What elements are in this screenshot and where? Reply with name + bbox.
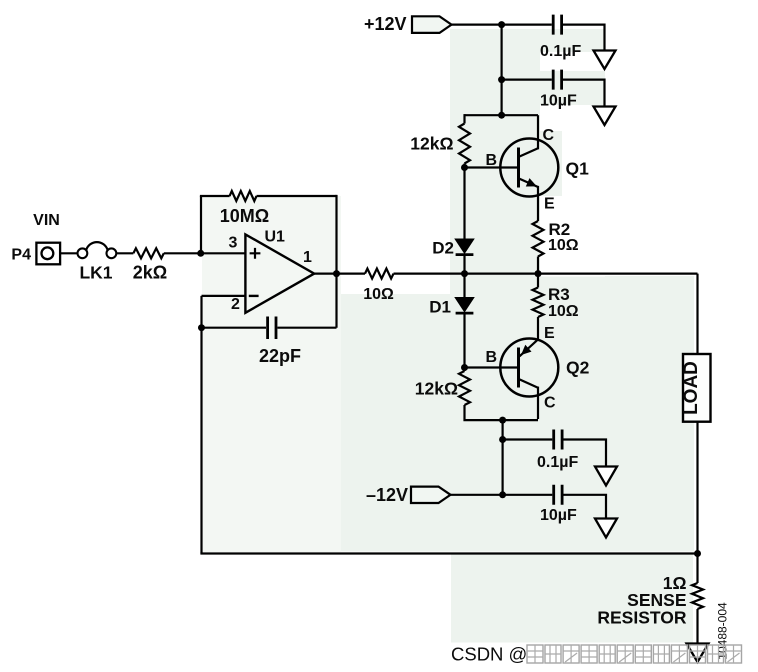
svg-text:10µF: 10µF bbox=[540, 507, 577, 524]
svg-text:–12V: –12V bbox=[366, 485, 408, 505]
pin number 3 bbox=[229, 235, 238, 252]
svg-text:0.1µF: 0.1µF bbox=[540, 43, 581, 60]
wire Q1 base bbox=[465, 166, 518, 168]
label D1 bbox=[429, 298, 451, 317]
wire -12V vertical column bbox=[502, 420, 504, 495]
wire P4 to LK1 bbox=[60, 252, 77, 254]
label 10Ohm output bbox=[363, 286, 394, 303]
node collector rail junction bbox=[498, 112, 505, 119]
node Q1 base junction bbox=[461, 164, 468, 171]
svg-text:LK1: LK1 bbox=[79, 263, 112, 283]
pin number 1 bbox=[303, 249, 312, 266]
transistor Q1 bbox=[500, 115, 558, 221]
svg-text:10Ω: 10Ω bbox=[548, 303, 579, 320]
svg-text:VIN: VIN bbox=[33, 212, 60, 229]
wire 0.1uF to ground bbox=[563, 25, 605, 51]
diode D2 bbox=[456, 239, 474, 254]
wire op-amp -in to left bbox=[202, 295, 246, 297]
svg-text:B: B bbox=[485, 152, 497, 169]
label B Q1 bbox=[485, 152, 497, 169]
ground top 2 bbox=[594, 107, 616, 126]
svg-text:2kΩ: 2kΩ bbox=[133, 263, 167, 283]
resistor 1 Ohm sense bbox=[692, 583, 703, 609]
label D2 bbox=[432, 239, 454, 258]
diode D1 bbox=[456, 298, 474, 313]
label E Q1 bbox=[544, 196, 555, 213]
node 0.1uF bottom junction bbox=[499, 436, 506, 443]
svg-text:+12V: +12V bbox=[364, 14, 407, 34]
label 22pF bbox=[259, 346, 301, 366]
label RESISTOR bbox=[597, 608, 687, 628]
label 10MOhm bbox=[220, 206, 269, 226]
wire -12V to 10uF bbox=[451, 494, 553, 496]
wire D1 to Q2 base column bbox=[463, 313, 465, 371]
svg-text:10Ω: 10Ω bbox=[363, 286, 394, 303]
ground sense bbox=[687, 644, 709, 663]
op-amp U1 bbox=[245, 234, 314, 312]
wire 10uF bottom to ground bbox=[564, 495, 607, 519]
wire Q2 base bbox=[465, 366, 518, 368]
node -12V junction bbox=[499, 491, 506, 498]
label R2 bbox=[549, 220, 571, 239]
svg-text:0.1µF: 0.1µF bbox=[537, 454, 578, 471]
pin number 2 bbox=[231, 296, 240, 313]
shaded background region (below bottom rail) bbox=[451, 554, 693, 643]
wire 10uF to ground bbox=[563, 80, 605, 107]
label P4 bbox=[11, 247, 31, 264]
shaded background region (Q1) bbox=[499, 131, 562, 196]
label 0.1uF bottom bbox=[537, 454, 578, 471]
svg-text:10Ω: 10Ω bbox=[548, 237, 579, 254]
svg-text:Q1: Q1 bbox=[566, 159, 590, 179]
wire 22pF right bbox=[278, 327, 337, 329]
wire to 0.1uF bottom bbox=[503, 438, 553, 440]
wire +12V to 0.1uF bbox=[452, 24, 552, 26]
resistor R2 bbox=[533, 221, 544, 257]
capacitor 10uF bottom bbox=[554, 485, 562, 505]
shaded background region (right block by LOAD) bbox=[605, 276, 694, 552]
wire sense lead top bbox=[696, 554, 698, 584]
svg-text:R3: R3 bbox=[548, 285, 570, 304]
svg-text:3: 3 bbox=[229, 235, 238, 252]
connector +12V flag bbox=[412, 16, 452, 33]
shaded background region (lower middle block) bbox=[341, 294, 605, 552]
svg-text:2: 2 bbox=[231, 296, 240, 313]
shaded background region (10uF label) bbox=[540, 71, 605, 105]
node diode column junction bbox=[461, 270, 468, 277]
label Q1 bbox=[566, 159, 590, 179]
shaded background region (supply column) bbox=[450, 29, 540, 294]
wire -in vertical down to bottom rail bbox=[200, 296, 202, 554]
wire load top vertical bbox=[696, 274, 698, 354]
svg-text:U1: U1 bbox=[265, 229, 286, 246]
node 10uF junction bbox=[498, 76, 505, 83]
node output junction bbox=[333, 270, 340, 277]
label C Q1 bbox=[543, 127, 555, 144]
figure code 10488-004 bbox=[716, 602, 730, 660]
label 0.1uF top bbox=[540, 43, 581, 60]
svg-text:P4: P4 bbox=[11, 247, 31, 264]
label -12V bbox=[366, 485, 408, 505]
label SENSE bbox=[627, 590, 686, 610]
wire feedback top right bbox=[257, 195, 337, 197]
resistor 12k lower bbox=[459, 371, 470, 405]
label 2kOhm bbox=[133, 263, 167, 283]
label U1 bbox=[265, 229, 286, 246]
svg-text:B: B bbox=[485, 349, 497, 366]
resistor 2k bbox=[133, 248, 163, 258]
watermark CJK glyph blocks bbox=[527, 645, 742, 663]
ground bottom 1 bbox=[595, 467, 617, 486]
wire load bottom vertical bbox=[696, 422, 698, 554]
label R3 value bbox=[548, 303, 579, 320]
wire +12V vertical column bbox=[501, 25, 503, 116]
connector P4 bbox=[36, 243, 60, 265]
svg-text:C: C bbox=[543, 127, 555, 144]
wire LK1 to R 2k bbox=[116, 252, 133, 254]
label LK1 bbox=[79, 263, 112, 283]
svg-text:C: C bbox=[544, 395, 556, 412]
wire 22pF left bbox=[202, 327, 267, 329]
svg-text:RESISTOR: RESISTOR bbox=[597, 608, 687, 628]
label R2 value bbox=[548, 237, 579, 254]
load box bbox=[681, 354, 711, 422]
wire R 2k to op-amp +in bbox=[164, 252, 246, 254]
svg-text:E: E bbox=[544, 196, 555, 213]
label B Q2 bbox=[485, 349, 497, 366]
node +in junction bbox=[197, 250, 204, 257]
resistor R3 bbox=[533, 288, 544, 318]
resistor 12k upper bbox=[459, 124, 470, 164]
node +12V junction bbox=[498, 21, 505, 28]
capacitor 22pF bbox=[268, 317, 276, 340]
capacitor 0.1uF top bbox=[553, 15, 561, 35]
wire feedback right vertical bbox=[335, 195, 337, 328]
label +12V bbox=[364, 14, 407, 34]
node 22pF left junction bbox=[198, 324, 205, 331]
label 12kOhm upper bbox=[410, 134, 453, 154]
node bottom centre junction bbox=[499, 417, 506, 424]
ground bottom 2 bbox=[595, 519, 617, 538]
svg-text:12kΩ: 12kΩ bbox=[410, 134, 453, 154]
svg-text:22pF: 22pF bbox=[259, 346, 301, 366]
label 10uF bottom bbox=[540, 507, 577, 524]
jumper LK1 bbox=[78, 242, 117, 258]
wire to 10uF bbox=[502, 78, 552, 80]
wire 12k lower lead bbox=[465, 405, 539, 420]
node sense junction bbox=[694, 550, 701, 557]
label 10uF top bbox=[540, 93, 577, 110]
wire sense lead bottom bbox=[696, 609, 698, 644]
label Q2 bbox=[566, 358, 590, 378]
wire feedback left vertical bbox=[200, 196, 202, 253]
svg-text:D2: D2 bbox=[432, 239, 454, 258]
shaded background region (op-amp column) bbox=[202, 196, 341, 552]
wire R3 to Q2 emitter bbox=[537, 317, 539, 341]
wire 0.1uF bottom to ground bbox=[564, 440, 607, 467]
watermark CSDN text bbox=[451, 644, 527, 665]
svg-text:LOAD: LOAD bbox=[681, 361, 702, 415]
shaded background region (R3 label strip) bbox=[540, 277, 605, 295]
label VIN bbox=[33, 212, 60, 229]
label R3 bbox=[548, 285, 570, 304]
svg-text:12kΩ: 12kΩ bbox=[415, 379, 458, 399]
svg-text:CSDN @: CSDN @ bbox=[451, 644, 527, 665]
shaded background region (0.1uF label) bbox=[540, 29, 605, 52]
wire 12k to D2 bbox=[463, 164, 465, 240]
wire 12k top lead bbox=[463, 114, 465, 123]
wire feedback top left bbox=[200, 195, 230, 197]
label C Q2 bbox=[544, 395, 556, 412]
wire D2 to D1 bbox=[463, 255, 465, 298]
connector -12V flag bbox=[411, 487, 451, 503]
svg-text:Q2: Q2 bbox=[566, 358, 590, 378]
resistor 10 output bbox=[365, 269, 394, 279]
wire collector rail bbox=[465, 114, 539, 116]
wire R2 to junction bbox=[537, 257, 539, 288]
capacitor 10uF top bbox=[553, 70, 561, 90]
svg-text:E: E bbox=[544, 325, 555, 342]
svg-text:10µF: 10µF bbox=[540, 93, 577, 110]
capacitor 0.1uF bottom bbox=[554, 430, 562, 450]
node Q2 base junction bbox=[461, 364, 468, 371]
svg-text:D1: D1 bbox=[429, 298, 451, 317]
svg-text:1: 1 bbox=[303, 249, 312, 266]
ground top 1 bbox=[594, 51, 616, 70]
svg-text:10MΩ: 10MΩ bbox=[220, 206, 269, 226]
label 1Ohm bbox=[663, 573, 687, 593]
node R2 R3 junction bbox=[535, 270, 542, 277]
label E Q2 bbox=[544, 325, 555, 342]
label 12kOhm lower bbox=[415, 379, 458, 399]
transistor Q2 bbox=[500, 339, 558, 420]
resistor 10M bbox=[230, 191, 257, 201]
wire bottom rail bbox=[200, 552, 698, 554]
wire output to load corner bbox=[394, 273, 698, 275]
wire op-amp output bbox=[314, 273, 365, 275]
